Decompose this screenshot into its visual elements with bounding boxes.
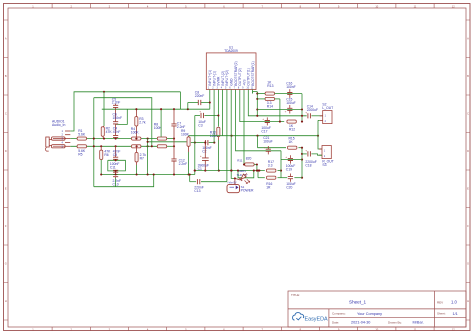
svg-text:2021-04-30: 2021-04-30	[351, 321, 370, 325]
rail170 dots	[194, 170, 196, 172]
node V279 r12	[279, 121, 281, 123]
wire rail174	[101, 174, 195, 176]
wire C13 row	[190, 181, 196, 183]
capacitor C21	[266, 149, 271, 151]
wire V161	[160, 109, 162, 137]
svg-text:MrBar.: MrBar.	[413, 321, 424, 325]
wire p9 net	[243, 94, 246, 165]
node V194 rail	[194, 170, 196, 172]
svg-text:B: B	[5, 74, 7, 78]
resistor R8	[157, 137, 166, 140]
wire V281	[280, 151, 282, 178]
svg-text:2.2nF: 2.2nF	[179, 162, 188, 166]
capacitor C12	[171, 159, 176, 161]
wire H141	[148, 141, 187, 143]
connector S3 R_OUT	[322, 146, 331, 159]
LED LED1	[241, 174, 246, 179]
svg-text:REV: REV	[437, 301, 443, 305]
resistor R13	[265, 92, 274, 95]
wire C5 col	[103, 92, 105, 126]
wire V257 fb2	[257, 136, 259, 148]
capacitor C3	[201, 113, 204, 118]
wire p10 net	[248, 94, 306, 116]
op-amp U1 TDA2009	[206, 53, 256, 90]
svg-text:+Vin+5V: +Vin+5V	[227, 182, 237, 185]
svg-text:+: +	[305, 110, 307, 114]
row dots	[93, 138, 95, 140]
svg-text:R7: R7	[140, 157, 144, 161]
svg-text:A: A	[467, 37, 469, 41]
wire V147	[147, 139, 149, 175]
wire R6 down	[100, 160, 102, 175]
svg-text:B: B	[467, 74, 469, 78]
svg-text:C: C	[467, 112, 469, 116]
svg-text:47nF: 47nF	[113, 130, 121, 134]
rail174 dots	[100, 173, 102, 175]
capacitor C7	[171, 124, 176, 126]
svg-text:BOOTSTRAP(1): BOOTSTRAP(1)	[251, 61, 255, 85]
wire C2 row	[191, 142, 205, 144]
connector AUDIO1 Audio_In	[46, 137, 49, 147]
wire C15 row	[257, 109, 302, 111]
wire loop right	[116, 109, 128, 124]
svg-text:100uF: 100uF	[263, 139, 272, 143]
capacitor C10	[113, 175, 118, 177]
node R3 top	[135, 108, 137, 110]
resistor R16	[267, 176, 276, 179]
wire p11 net	[253, 92, 258, 94]
svg-text:Sheet_1: Sheet_1	[349, 299, 367, 304]
svg-text:R12: R12	[289, 127, 295, 131]
wire V194	[194, 143, 196, 175]
capacitor C1	[202, 158, 209, 161]
H135 dots	[230, 135, 232, 137]
wire C8 drop	[187, 103, 189, 110]
wire p4 net	[222, 94, 224, 136]
resistor R9	[187, 137, 190, 146]
capacitor C20	[288, 177, 293, 179]
svg-text:Date:: Date:	[332, 320, 339, 324]
wire jack col	[93, 98, 95, 187]
wire C18 row	[302, 153, 307, 155]
svg-text:+: +	[285, 155, 287, 159]
wire H3 input row	[102, 108, 210, 110]
svg-text:Your Company: Your Company	[357, 312, 382, 316]
capacitor C18	[308, 151, 311, 156]
wire V257 boot	[256, 92, 258, 116]
resistor R14	[265, 97, 274, 100]
svg-text:+: +	[199, 110, 201, 114]
wire V302 ch1	[301, 94, 303, 122]
capacitor C4	[113, 135, 118, 137]
svg-text:D: D	[5, 149, 7, 153]
wire H1 drop	[179, 92, 181, 109]
resistor R6	[100, 150, 103, 159]
wire p5	[226, 94, 228, 182]
svg-text:1/1: 1/1	[453, 312, 458, 316]
svg-text:2200uF: 2200uF	[307, 108, 318, 112]
svg-text:L_OUT: L_OUT	[322, 106, 333, 110]
svg-text:Company:: Company:	[332, 312, 346, 316]
wire H135 link	[189, 135, 318, 137]
node H1-C5col	[103, 91, 105, 93]
connector S1 POWER DC jack	[227, 184, 240, 192]
wire R10 down	[217, 140, 219, 171]
svg-text:EasyEDA: EasyEDA	[305, 317, 328, 323]
resistor R12	[287, 120, 296, 123]
svg-text:150nF: 150nF	[113, 116, 122, 120]
svg-text:1.0: 1.0	[451, 300, 457, 305]
wire rail170	[195, 170, 265, 172]
svg-text:820: 820	[246, 156, 252, 160]
svg-text:D: D	[467, 149, 469, 153]
svg-text:E: E	[5, 187, 7, 191]
wire C11 loop	[108, 160, 126, 171]
svg-text:LED1: LED1	[239, 169, 247, 173]
svg-text:C19: C19	[286, 167, 292, 171]
V302 dots	[301, 108, 303, 110]
svg-text:2.2nF: 2.2nF	[112, 101, 121, 105]
svg-text:100K: 100K	[181, 133, 190, 137]
node V147-H141	[147, 141, 149, 143]
node C3	[217, 114, 219, 116]
wire C19 row	[281, 159, 302, 161]
svg-text:+: +	[200, 154, 202, 158]
resistor R5	[77, 145, 86, 148]
svg-text:C: C	[5, 112, 7, 116]
resistor R2	[101, 127, 104, 136]
svg-text:G: G	[467, 262, 469, 266]
wire V302 ch2	[301, 148, 303, 178]
svg-text:A: A	[5, 37, 7, 41]
svg-text:+: +	[262, 117, 264, 121]
svg-text:TITLE:: TITLE:	[291, 293, 300, 297]
svg-text:C9: C9	[113, 153, 117, 157]
wire p7 net	[236, 94, 282, 151]
EasyEDA logo	[293, 313, 304, 321]
svg-text:1R: 1R	[266, 185, 271, 189]
node H3 dots	[160, 108, 162, 110]
wire led gnd	[234, 177, 236, 179]
wire p3	[217, 94, 219, 127]
wire C3 row	[195, 115, 200, 117]
svg-text:5.6K: 5.6K	[78, 132, 86, 136]
svg-text:C2: C2	[202, 149, 206, 153]
wire H1 pin1 net	[70, 92, 180, 131]
svg-text:47K: 47K	[106, 130, 113, 134]
capacitor C8	[198, 100, 201, 105]
svg-text:+: +	[305, 148, 307, 152]
svg-text:100uF: 100uF	[286, 101, 295, 105]
wire R7 down	[136, 165, 138, 175]
svg-text:R6: R6	[104, 153, 108, 157]
wire p6 gnd	[231, 94, 235, 179]
resistor R3	[135, 117, 138, 126]
resistor R15	[288, 146, 297, 149]
svg-text:S3: S3	[322, 163, 326, 167]
V302 ch2 dots	[301, 147, 303, 149]
svg-text:2.7k: 2.7k	[139, 121, 146, 125]
resistor R11	[245, 163, 254, 166]
wire p1	[209, 94, 211, 110]
svg-text:+: +	[263, 146, 265, 150]
svg-text:H: H	[467, 299, 469, 303]
node C1 top	[204, 142, 206, 144]
svg-text:+: +	[285, 110, 287, 114]
svg-text:POWER: POWER	[241, 189, 254, 193]
svg-text:100nF: 100nF	[286, 85, 295, 89]
resistor R8b	[157, 145, 166, 148]
capacitor C13	[197, 179, 199, 184]
svg-text:R11: R11	[237, 158, 243, 162]
wire V279	[279, 99, 281, 122]
resistor R7	[135, 153, 138, 162]
svg-text:C11: C11	[110, 166, 116, 170]
capacitor C14	[308, 113, 311, 118]
node V281 rail	[280, 170, 282, 172]
svg-text:Drawn By:: Drawn By:	[388, 320, 402, 324]
wire R9 down	[188, 152, 190, 175]
svg-text:3.3: 3.3	[268, 163, 273, 167]
wire V194 up	[194, 116, 196, 143]
svg-text:R5: R5	[78, 152, 82, 156]
svg-text:C3: C3	[198, 124, 202, 128]
wire C10 gnd	[115, 178, 117, 187]
wire p2	[213, 94, 215, 143]
resistor R4b	[132, 145, 141, 148]
V257 dots	[256, 93, 258, 95]
wire bottom gnd	[94, 175, 154, 187]
svg-text:C1: C1	[198, 167, 202, 171]
capacitor C16	[287, 93, 292, 95]
node R11 left	[243, 163, 245, 165]
wire H2	[94, 98, 152, 147]
resistor R10	[217, 127, 220, 136]
svg-text:C17: C17	[261, 129, 267, 133]
svg-text:C20: C20	[286, 186, 292, 190]
capacitor C2	[205, 140, 208, 145]
node p6 rail	[230, 170, 232, 172]
resistor R17	[267, 169, 276, 172]
wire row2	[70, 145, 131, 147]
node C2	[194, 142, 196, 144]
svg-text:220nF: 220nF	[195, 94, 204, 98]
capacitor C5	[113, 105, 118, 107]
wire p8 net	[240, 94, 284, 122]
svg-text:H: H	[5, 299, 7, 303]
connector S2 L_OUT	[323, 111, 332, 124]
wire LED loop	[238, 171, 254, 178]
svg-text:100K: 100K	[131, 130, 140, 134]
wire R15 row	[258, 147, 287, 149]
wire R16 row	[258, 177, 265, 179]
svg-text:Audio_In: Audio_In	[52, 123, 65, 127]
resistor R1	[77, 137, 86, 140]
capacitor C6	[113, 122, 118, 124]
resistor R4	[132, 137, 141, 140]
svg-text:TDA2009: TDA2009	[224, 49, 238, 53]
node C11	[115, 159, 117, 161]
capacitor C17	[265, 121, 270, 123]
wire S2S3 link	[318, 119, 320, 121]
svg-text:C18: C18	[305, 164, 311, 168]
wire C13 left up	[189, 175, 191, 182]
capacitor C19	[288, 158, 293, 160]
svg-text:G: G	[5, 262, 7, 266]
title block	[288, 291, 466, 327]
wire row1	[70, 138, 131, 140]
svg-text:R14: R14	[267, 105, 273, 109]
capacitor C15	[287, 108, 292, 110]
U1 pin stubs	[209, 90, 211, 94]
svg-text:R13: R13	[267, 84, 273, 88]
capacitor C9	[113, 157, 118, 159]
svg-text:Sheet:: Sheet:	[437, 312, 446, 316]
capacitor C11	[113, 170, 118, 172]
svg-text:E: E	[467, 187, 469, 191]
svg-text:C13: C13	[194, 189, 200, 193]
